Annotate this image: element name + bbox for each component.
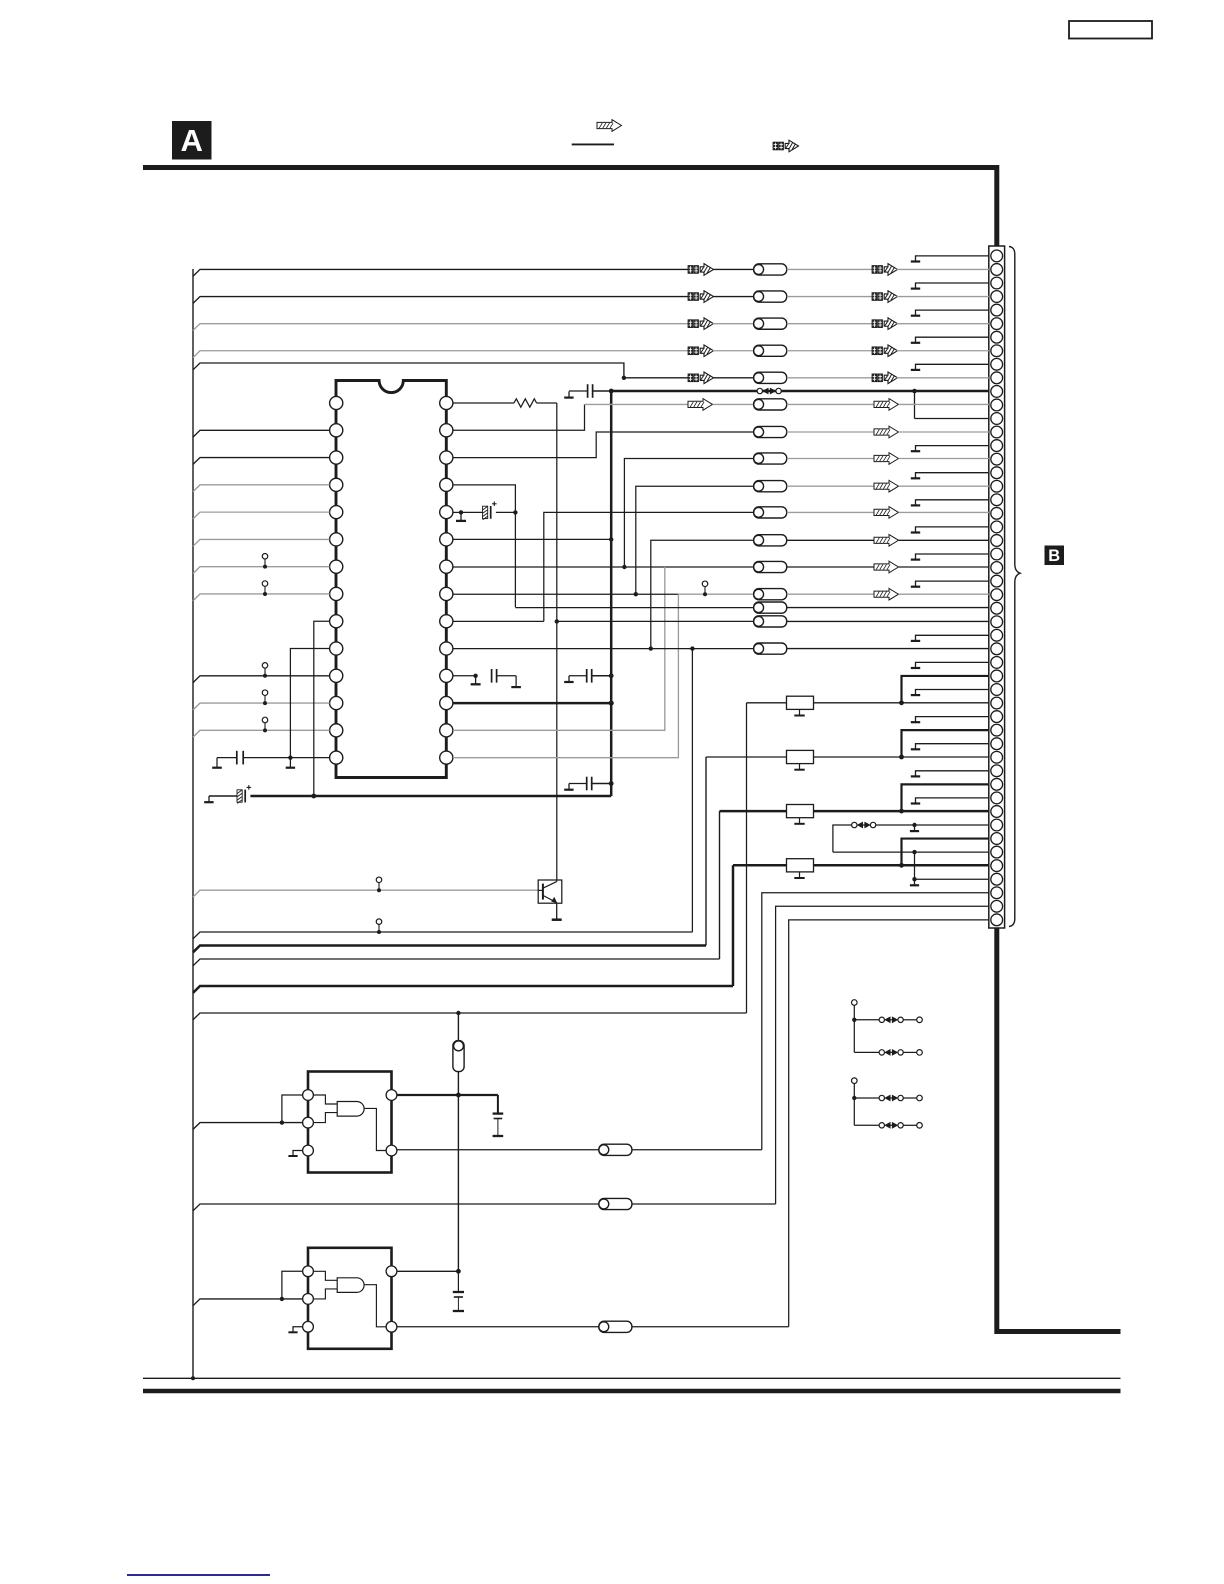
wire bus to IC pin4L: [193, 485, 330, 492]
wire pin13R riser (gray): [453, 567, 665, 730]
junction S2 top: [912, 850, 916, 854]
stair wire net9: [636, 486, 754, 594]
wire row net11 to pin22: [754, 535, 787, 546]
junction pin12 on power vertical: [609, 700, 614, 705]
test point on pin7L row: [262, 554, 268, 560]
wire IC pin10L down: [290, 649, 329, 768]
wire bus row thick to box4: [193, 986, 733, 993]
junction stair3 end: [649, 646, 653, 650]
wire C6 ground lead: [217, 757, 237, 759]
ground G2: [475, 676, 477, 684]
wire bus row to net16 riser: [193, 932, 692, 939]
junction FB4 node: [899, 863, 904, 868]
junction pin10L/cap row: [288, 755, 292, 759]
capacitor C5 ground: [568, 784, 570, 790]
wire row net10 to pin20: [754, 507, 787, 518]
junction X2 input split: [280, 1297, 284, 1301]
wire G4 to C7: [209, 795, 237, 797]
ferrite bead FB5 (vertical): [453, 1041, 464, 1072]
wire bus to IC pin5L: [193, 512, 330, 519]
module X1 left pin1: [303, 1090, 314, 1101]
junction stair1 end: [622, 565, 626, 569]
wire bus to IC pin3L: [193, 458, 330, 465]
module X1 internal wiring: [313, 1095, 337, 1104]
junction C4 on power vertical: [609, 673, 614, 678]
junction pin11: [473, 674, 477, 678]
wire bus to IC pin2L: [193, 430, 330, 437]
module X2 left pin3: [303, 1321, 314, 1332]
wire IC pin12R (thick): [453, 702, 611, 705]
transistor Q1 emitter ground: [556, 903, 558, 919]
module X2 resonator: [337, 1278, 364, 1293]
test point on pin11L row: [262, 663, 268, 669]
wire IC pin4R down: [453, 485, 515, 607]
wire elbow net to pin32: [902, 676, 990, 703]
junction X2 pinD / ferrite net: [456, 1269, 461, 1274]
capacitor C1 lead: [569, 390, 588, 392]
wire J2 to pin43: [876, 824, 989, 826]
wire row net4 to pin8: [193, 351, 688, 358]
wire FB3 to connector: [814, 810, 990, 813]
right border below connector (thick): [997, 928, 1121, 1332]
capacitor C2 (electrolytic): [483, 506, 488, 518]
capacitor C8: [497, 1095, 499, 1113]
wire elbow net to pin36: [902, 784, 990, 811]
wire row net5 with jog to pin10: [193, 363, 688, 378]
junction power node A: [609, 389, 614, 394]
junction C5 on power vertical: [609, 781, 614, 786]
top border (thick): [143, 168, 997, 247]
wire pin14R riser (gray): [453, 594, 678, 757]
wire bus row thick to box2: [193, 946, 706, 953]
svg-text:A: A: [181, 123, 203, 158]
junction FB2 node: [899, 755, 904, 760]
wire IC pin9L to VCC: [314, 621, 330, 796]
capacitor C6: [236, 751, 238, 765]
junction Q1 base net: [555, 619, 559, 623]
ground stub S2: [912, 877, 916, 881]
wire C2 to node: [496, 511, 516, 513]
header underline: [572, 143, 614, 145]
transistor Q1 box: [538, 880, 562, 903]
wire X1 pinE to pin48: [397, 1149, 599, 1151]
module X1 pinC hook: [293, 1151, 303, 1156]
section label A: [172, 121, 212, 160]
wire X1 input branch: [282, 1095, 303, 1123]
wire X2 pinE to pin50: [397, 1326, 599, 1328]
capacitor C5: [586, 777, 588, 791]
wire bus row to pin49: [193, 1204, 599, 1211]
wire row net15 to pin28: [557, 620, 754, 622]
test point TP6: [702, 581, 708, 587]
wire IC pin8R: [453, 593, 678, 595]
wire X2 pinD: [397, 1270, 459, 1272]
capacitor C1 ground: [568, 391, 570, 397]
wire FB1 to connector: [814, 702, 990, 704]
junction FB3 node: [899, 809, 904, 814]
filter FB2: [787, 750, 814, 763]
wire IC pin11R: [453, 675, 476, 677]
wire row net3 to pin6: [193, 324, 688, 331]
module X2 right pinD: [386, 1266, 397, 1277]
wire FB4 to connector: [814, 864, 990, 867]
wire IC pin5R: [453, 511, 461, 513]
wire X1 pinD (thick): [397, 1094, 498, 1096]
test point TP7: [376, 877, 382, 883]
capacitor C6 ground: [212, 767, 222, 769]
ground G3: [286, 767, 295, 769]
wire row net16 to pin30: [754, 643, 787, 654]
ground stub S1: [912, 823, 916, 827]
power net row (thick): [611, 390, 989, 393]
junction X1 pinD / ferrite net: [456, 1093, 461, 1098]
junction FB1 node: [899, 700, 904, 705]
wire IC pin1R: [453, 402, 514, 404]
wire vertical to Q1 collector: [556, 403, 558, 880]
wire ferrite net vertical: [457, 1013, 459, 1271]
stair wire net8: [624, 459, 753, 568]
junction net pin4/pin5: [513, 510, 517, 514]
capacitor C4 to power: [592, 675, 612, 677]
wire C3 lead: [497, 675, 516, 677]
ground G1: [460, 512, 462, 520]
resistor R1: [514, 399, 537, 407]
wire stub S2: [914, 852, 916, 879]
junction X1 input split: [280, 1120, 284, 1124]
page reference box (top right): [1069, 21, 1152, 39]
capacitor C9: [453, 1291, 464, 1293]
wire IC pin2R up: [453, 404, 585, 430]
wire row net1 to pin2: [193, 269, 688, 276]
wire bus to IC pin11L: [193, 676, 330, 683]
section label B: [1045, 546, 1065, 566]
jumper group JP1 pin: [852, 1000, 858, 1006]
junction pin5: [459, 510, 463, 514]
wire bus to IC pin8L: [193, 594, 330, 601]
wire row net8 to pin16: [754, 453, 787, 464]
wire IC pin7R: [453, 566, 665, 568]
jumper group JP2 row2: [854, 1124, 879, 1126]
jumper group JP2 row1: [854, 1097, 879, 1099]
wire FB2 to connector: [814, 756, 990, 758]
wire to filter FB2: [706, 756, 787, 758]
test point TP8: [376, 919, 382, 925]
junction pin6 on power vertical: [609, 537, 613, 541]
module X2 left pin1: [303, 1266, 314, 1277]
wire to filter FB4: [733, 864, 787, 867]
module X1 left pin2: [303, 1117, 314, 1128]
wire bus row to box3: [193, 959, 720, 966]
jumper group JP2 wire: [853, 1084, 855, 1126]
oscillator module X1 box: [308, 1072, 392, 1173]
filter FB3: [787, 805, 814, 818]
connector CN pins 1-50: [991, 250, 1003, 926]
wire row pin47: [915, 878, 990, 880]
junction net5 jog: [622, 376, 626, 380]
wire bus to IC pin13L: [193, 730, 330, 737]
wire row net13 to pin26: [678, 593, 753, 595]
bottom border thick: [143, 1389, 1121, 1394]
wire to filter FB1: [747, 702, 787, 704]
capacitor C5 to power: [592, 783, 612, 785]
wire bus to IC pin12L: [193, 703, 330, 710]
bottom border thin: [143, 1377, 1121, 1379]
IC U1 body: [336, 381, 446, 778]
wire to C2: [461, 511, 483, 513]
filter FB4: [787, 859, 814, 872]
wire bus to module X1 input: [193, 1123, 303, 1130]
wire bus to Q1 base: [193, 890, 538, 897]
power vertical (thick): [610, 391, 613, 796]
module X1 left pin3: [303, 1145, 314, 1156]
wire IC pin9R up: [453, 620, 544, 622]
capacitor C1 to node: [593, 390, 612, 392]
wire row net2 to pin4: [193, 297, 688, 304]
stair wire net11: [651, 540, 754, 648]
module X1 right pinD: [386, 1090, 397, 1101]
jumper J1 on power row: [757, 388, 762, 393]
capacitor C3 far ground: [515, 676, 517, 687]
wire R1 to vertical: [537, 402, 557, 404]
test point on pin13L row: [262, 717, 268, 723]
wire row net9 to pin18: [754, 481, 787, 492]
test point on pin8L row: [262, 581, 268, 587]
wire bus to IC pin6L: [193, 539, 330, 546]
wire elbow net to pin34: [902, 730, 990, 757]
wire bus to IC pin7L: [193, 567, 330, 574]
left bus wire: [192, 269, 194, 1379]
wire row net6 to pin12: [585, 403, 689, 405]
jumper J2: [852, 822, 857, 827]
jumper group JP1 row1: [854, 1019, 879, 1021]
wire to filter FB3: [720, 810, 787, 813]
connector CN strip: [989, 246, 1005, 928]
module X2 internal wiring: [313, 1271, 337, 1280]
VCC row (thick): [250, 795, 611, 798]
IC U1 right pins: [440, 396, 453, 764]
filter FB1: [787, 696, 814, 709]
module X2 left pin2: [303, 1294, 314, 1305]
ground G4: [208, 796, 210, 802]
module X2 right pinE: [386, 1321, 397, 1332]
junction riser row932: [690, 646, 694, 650]
NC hooks on odd connector pins: [911, 256, 989, 804]
wire jumper row pin43: [833, 825, 852, 852]
wire X2 input branch: [282, 1271, 303, 1299]
module X1 right pinE: [386, 1145, 397, 1156]
oscillator module X2 box: [308, 1248, 392, 1349]
wire bus row to box1: [193, 1013, 747, 1020]
wire IC pin10R: [453, 648, 753, 650]
wire row net12 to pin24: [665, 566, 754, 568]
capacitor C1: [587, 384, 589, 398]
wire IC pin3R riser: [453, 432, 753, 458]
jumper group JP2 pin: [852, 1078, 858, 1084]
jumper group JP1 row2: [854, 1051, 879, 1053]
wire bus to module X2 input: [193, 1299, 303, 1306]
wire IC pin6R: [453, 538, 611, 540]
module X1 resonator: [337, 1102, 364, 1117]
wire row net14 to pin27: [515, 607, 753, 609]
IC U1 left pins: [330, 396, 343, 764]
connector brace: [1009, 247, 1020, 927]
left bus bottom junction: [191, 1376, 195, 1380]
wire row pin45: [833, 851, 989, 853]
wire elbow net to pin38: [902, 839, 990, 866]
test point on pin12L row: [262, 690, 268, 696]
power stub to pin13: [912, 389, 917, 394]
header net label arrow: [773, 142, 778, 150]
capacitor C3: [491, 669, 493, 683]
capacitor C4: [586, 669, 588, 683]
transistor Q1 symbol: [542, 884, 544, 900]
svg-text:B: B: [1048, 547, 1060, 565]
wire row net7 to pin14: [754, 426, 787, 437]
wire C6 to pin14L: [243, 757, 329, 759]
junction VCC/pin9L: [311, 794, 316, 799]
junction ferrite riser: [456, 1011, 460, 1015]
capacitor C4 ground: [568, 676, 570, 682]
capacitor C5 lead: [569, 783, 587, 785]
capacitor C7 (electrolytic): [237, 790, 242, 802]
module X2 pinC hook: [293, 1327, 303, 1332]
footer link line: [127, 1574, 270, 1576]
header flow arrow: [597, 120, 622, 132]
stair wire net10: [544, 512, 754, 621]
capacitor C4 lead: [569, 675, 587, 677]
junction stair2 end: [634, 592, 638, 596]
jumper group JP1 wire: [853, 1005, 855, 1052]
